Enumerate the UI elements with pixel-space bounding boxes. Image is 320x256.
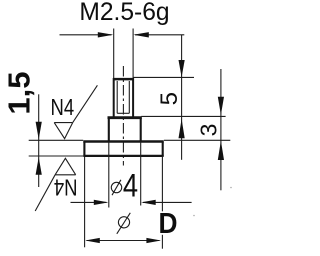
arrow 5 lower <box>179 119 185 138</box>
thread left side <box>113 78 115 118</box>
svg-text:D: D <box>159 207 178 239</box>
surface symbol N4 upper triangle <box>54 123 72 139</box>
svg-text:1,5: 1,5 <box>2 71 37 114</box>
dimension line dia4 left segment <box>71 201 107 203</box>
label dia symbol bottom <box>117 213 131 234</box>
collar top edge <box>108 116 142 119</box>
flange top edge <box>83 140 163 142</box>
surface symbol N4 lower slash <box>35 175 55 211</box>
svg-text:4: 4 <box>123 168 138 204</box>
svg-text:N4: N4 <box>51 95 75 121</box>
extension line collar top right <box>141 115 225 117</box>
arrow dia4 right <box>141 200 156 205</box>
arrow 3 upper <box>218 97 224 115</box>
svg-text:N4: N4 <box>54 174 78 200</box>
extension line flange right down upper part <box>161 156 163 211</box>
arrow M2.5 left <box>98 32 114 37</box>
dimension line 3 vertical <box>220 69 222 190</box>
dimension line M2.5 right segment <box>135 34 184 36</box>
extension line flange bottom left <box>29 155 83 157</box>
collar left side <box>108 118 110 142</box>
speck dot bottom <box>193 215 195 217</box>
svg-text:5: 5 <box>156 92 183 105</box>
collar right side <box>140 118 142 142</box>
arrow 1,5 lower <box>36 157 42 175</box>
arrow 3 lower <box>218 141 224 160</box>
arrow diaD right <box>146 238 161 243</box>
extension line flange right down lower part <box>161 235 163 249</box>
extension line flange left down <box>84 157 86 247</box>
flange bottom edge <box>83 155 163 157</box>
dimension line dia4 right segment <box>143 201 192 203</box>
arrow 1,5 upper <box>36 122 42 140</box>
dimension line diaD bottom <box>87 240 160 242</box>
thread top edge <box>113 78 134 81</box>
flange right side <box>162 142 164 156</box>
extension line collar left down <box>108 142 110 208</box>
extension line flange top right <box>164 139 230 141</box>
dimension line 1,5 vertical <box>38 94 40 187</box>
arrow M2.5 right <box>133 32 149 37</box>
extension line flange top left <box>29 139 83 141</box>
flange left side <box>83 142 85 156</box>
arrow diaD left <box>85 238 100 243</box>
dimension line 5 vertical <box>181 35 183 160</box>
extension line thread top right <box>134 76 195 78</box>
arrow 5 upper <box>179 60 185 77</box>
extension line thread right up <box>132 29 134 79</box>
surface symbol N4 upper slash <box>73 85 98 122</box>
centerline <box>122 66 124 166</box>
surface symbol N4 lower triangle <box>55 158 76 175</box>
thread runout line <box>117 112 129 114</box>
svg-text:M2.5-6g: M2.5-6g <box>79 0 169 26</box>
thread minor diameter right <box>128 81 130 113</box>
svg-text:3: 3 <box>195 124 221 137</box>
thread right side <box>132 78 134 118</box>
arrow dia4 left <box>94 200 109 205</box>
label dia symbol of dia4 <box>111 180 121 195</box>
extension line thread left up <box>113 29 115 79</box>
thread minor diameter left <box>116 81 118 113</box>
speck dot right <box>230 187 232 189</box>
extension line collar right down <box>140 142 142 206</box>
dimension line M2.5 left segment <box>60 34 112 36</box>
